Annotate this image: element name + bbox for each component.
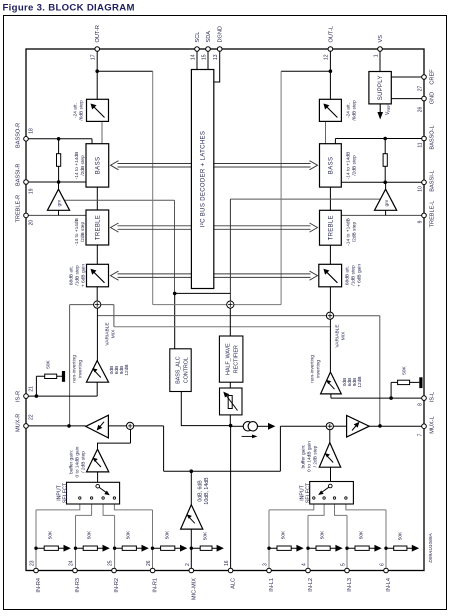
svg-text:-14 to +14dB: -14 to +14dB: [346, 218, 352, 246]
svg-text:1: 1: [373, 54, 379, 57]
svg-text:/ 2dB step: / 2dB step: [313, 445, 319, 467]
svg-text:buffer gain:: buffer gain:: [69, 450, 75, 474]
op-amp mic: [181, 505, 203, 529]
pin 19 BASSI-R: [24, 180, 29, 185]
summing node R: [326, 312, 333, 319]
svg-text:BASS_ALC: BASS_ALC: [176, 356, 182, 384]
svg-text:D99AU1069A: D99AU1069A: [428, 533, 434, 562]
svg-text:5: 5: [341, 563, 347, 566]
svg-text:MIX: MIX: [111, 329, 117, 338]
wire IN-L3 column: [346, 515, 348, 570]
block INPUT SELECT R: [67, 482, 120, 504]
wire OUT-R tap drop: [152, 71, 154, 304]
svg-text:/2dB step: /2dB step: [352, 222, 358, 243]
wire gm-R feed drop to node A: [174, 200, 176, 293]
svg-text:IN-R4: IN-R4: [36, 578, 42, 593]
wire input rail L: [269, 547, 413, 549]
svg-text:VS: VS: [378, 35, 384, 43]
op-amp buffer gain L: [319, 443, 340, 468]
svg-text:TREBLE: TREBLE: [95, 215, 101, 240]
svg-text:I²C BUS DECODER + LATCHES: I²C BUS DECODER + LATCHES: [201, 131, 207, 228]
wire rectifier feed horizontal: [175, 292, 231, 294]
wire sum MR right branch: [134, 426, 164, 471]
wire IN-R4 column: [35, 510, 37, 571]
svg-text:12dB: 12dB: [124, 364, 130, 375]
op-amp gm R: [47, 189, 69, 210]
op-amp variable mix R: [86, 361, 108, 383]
wire pin10 BASSI-L line: [341, 181, 424, 183]
pin 2 MIC-MIX: [189, 568, 194, 573]
rail resistor network right-channel inputs: [36, 547, 413, 549]
svg-text:BASS: BASS: [95, 157, 101, 175]
pin 4 IN-L2: [306, 568, 311, 573]
summing node L: [94, 301, 101, 308]
svg-text:25: 25: [108, 560, 114, 566]
wire buffer-up R output: [329, 430, 331, 443]
wire buffer-up L output: [98, 430, 131, 450]
wire pin8 bias network: [391, 382, 419, 398]
svg-text:IS-R: IS-R: [16, 391, 22, 402]
svg-text:24: 24: [69, 560, 75, 566]
svg-text:VARIABLE: VARIABLE: [105, 322, 111, 345]
svg-text:50K: 50K: [46, 359, 52, 368]
wire selectL1 to IN-L1: [269, 504, 314, 510]
wire BASS-R to TREBLE-R: [96, 187, 98, 210]
svg-text:0dB, 6dB: 0dB, 6dB: [198, 480, 204, 502]
wire TREBLE-R to att2-R: [96, 245, 98, 264]
svg-text:/1dB step: /1dB step: [351, 265, 357, 286]
svg-text:inverting: inverting: [316, 360, 322, 378]
wire IN-R3 column: [75, 515, 77, 570]
wire ALC junction to pin16: [230, 426, 232, 571]
wire selectL4 to IN-L4: [346, 504, 386, 510]
pin 25 IN-R2: [112, 568, 117, 573]
svg-text:68dB att.: 68dB att.: [69, 266, 75, 285]
svg-text:12dB: 12dB: [357, 376, 363, 387]
block BASS_ALC CONTROL: [170, 349, 191, 392]
wire buffer L output to sum ML: [333, 425, 346, 427]
wire resistor R1 stubs: [58, 139, 60, 182]
svg-text:21: 21: [29, 386, 35, 392]
wire pin13 DGND route: [214, 51, 220, 82]
svg-text:/6dB step: /6dB step: [352, 100, 358, 121]
attenuator block 68dB R: [87, 264, 109, 287]
wire OUT-L tap left: [281, 70, 330, 72]
wire pin21 bias network: [36, 376, 62, 396]
pin 17 OUT-R: [95, 47, 100, 52]
svg-text:6: 6: [380, 563, 386, 566]
svg-text:IN-L2: IN-L2: [308, 578, 314, 592]
wire att2-R to sum node L: [96, 287, 98, 301]
summing node MUX-L: [326, 423, 333, 430]
svg-text:buffer gain:: buffer gain:: [301, 445, 307, 469]
wire IN-L2 column: [307, 515, 309, 570]
pin 22 MUX-R: [24, 424, 29, 429]
svg-text:50K: 50K: [165, 530, 171, 539]
wire pin7 MUX-L line: [369, 425, 424, 427]
wire gm-L feed corner to sum node C: [229, 199, 231, 301]
svg-text:OUT-R: OUT-R: [95, 25, 101, 42]
wire IN-L1 column: [268, 510, 270, 571]
pin 8 IS-L: [422, 396, 427, 401]
svg-text:HALF_WAVE: HALF_WAVE: [225, 343, 231, 375]
svg-text:ALC: ALC: [231, 578, 237, 589]
pin terminal circles: [24, 47, 427, 573]
svg-text:-14 to +14dB: -14 to +14dB: [346, 152, 352, 180]
svg-text:11: 11: [418, 142, 424, 147]
op-amp gm L: [375, 189, 397, 210]
wire pin17 OUT-R down to att: [96, 49, 98, 99]
op-amp mux buffer R: [86, 415, 109, 438]
svg-text:2: 2: [185, 563, 191, 566]
wire pin21 IS-R line: [26, 395, 97, 397]
svg-text:50K: 50K: [281, 530, 287, 539]
wire select3 to IN-R2: [103, 504, 115, 515]
svg-text:IN-L3: IN-L3: [347, 578, 353, 592]
svg-text:10dB, 14dB: 10dB, 14dB: [204, 477, 210, 505]
wire gm-L feed line: [230, 198, 380, 200]
svg-text:50K: 50K: [126, 530, 132, 539]
wire pin11 BASSO-L line: [335, 139, 424, 144]
block TREBLE R: [86, 210, 109, 245]
pin 3 IN-L1: [267, 568, 272, 573]
svg-text:GND: GND: [430, 92, 436, 104]
wire pin14 SCL into I2C: [196, 51, 198, 70]
current mirror: [242, 422, 276, 439]
pin 12 OUT-L: [328, 47, 333, 52]
resistor 50K at pin21: [45, 371, 65, 382]
svg-text:23: 23: [30, 560, 36, 566]
wire selectL2 to IN-L2: [308, 504, 324, 515]
summing node MUX-R: [127, 422, 134, 429]
svg-text:BASSI-R: BASSI-R: [16, 164, 22, 186]
resistor 50K r6: [161, 546, 175, 550]
svg-text:3: 3: [263, 563, 269, 566]
attenuator block -24dB L: [319, 99, 341, 121]
pin 6 IN-L4: [384, 568, 389, 573]
wire mic amp input: [190, 471, 192, 505]
wire IN-R1 column: [152, 510, 154, 571]
wire select1 to IN-R4: [36, 504, 80, 510]
pin 26 IN-R1: [150, 568, 155, 573]
svg-text:16: 16: [224, 560, 230, 566]
wire node A down to BASS_ALC: [174, 293, 176, 348]
Vref arrow under supply: [377, 104, 391, 120]
svg-text:SELECT: SELECT: [306, 482, 312, 503]
wire buffer R output to sum MR: [108, 425, 126, 427]
bus arrow I2C to BASS-L: [214, 161, 318, 170]
svg-text:MIC-MIX: MIC-MIX: [191, 578, 197, 600]
svg-text:18: 18: [29, 128, 35, 134]
svg-text:50K: 50K: [320, 530, 326, 539]
svg-text:50K: 50K: [48, 530, 54, 539]
svg-text:-14 to +14dB: -14 to +14dB: [74, 152, 80, 180]
svg-text:14: 14: [190, 54, 196, 60]
resistor 50K r3: [44, 546, 58, 550]
svg-text:gm: gm: [385, 200, 390, 207]
block BASS R: [86, 144, 109, 187]
pin 24 IN-R3: [73, 568, 78, 573]
wire ALC junction to mirror: [231, 425, 244, 427]
block SUPPLY: [369, 72, 391, 104]
svg-text:RECTIFIER: RECTIFIER: [233, 345, 239, 373]
summing node C: [227, 301, 234, 308]
wire pin20 TREBLE-R line: [26, 214, 86, 216]
attenuator block -24dB R: [87, 99, 109, 121]
svg-text:TREBLE-R: TREBLE-R: [16, 195, 22, 223]
wire mic bus horizontal: [164, 470, 281, 472]
resistor R2 (between pins 11/10): [383, 154, 387, 167]
wire mic amp output to rail: [190, 529, 192, 570]
resistor 50K r11: [394, 546, 407, 550]
pin 7 MUX-L: [422, 424, 427, 429]
svg-text:68dB att.: 68dB att.: [345, 266, 351, 285]
wire cross-feed mid gray: [153, 304, 281, 306]
device boundary box: [26, 49, 424, 571]
wire cross-feed upper long: [98, 315, 327, 317]
svg-text:50K: 50K: [398, 531, 404, 540]
resistor 50K r9: [316, 546, 330, 550]
wire varres to ALC junction: [229, 415, 231, 426]
wire mix amp L output to IS-L: [330, 394, 332, 398]
wire gm-L stubs: [385, 182, 387, 215]
resistor R1 (between pins 18/19): [57, 154, 61, 167]
svg-text:IN-L1: IN-L1: [269, 578, 275, 592]
wire select4 to IN-R1: [114, 504, 152, 510]
svg-text:BASSI-L: BASSI-L: [430, 170, 436, 191]
svg-text:BASSO-L: BASSO-L: [430, 125, 436, 149]
svg-text:SCL: SCL: [195, 32, 201, 43]
svg-text:inverting: inverting: [78, 360, 84, 378]
bus arrow I2C to TREBLE-L: [214, 223, 318, 232]
svg-text:50K: 50K: [402, 365, 408, 374]
pin 20 TREBLE-R: [24, 213, 29, 218]
pin 11 BASSO-L: [422, 136, 427, 141]
variable resistor box: [220, 388, 243, 415]
wire mix amp R output to IS-R: [96, 382, 98, 396]
svg-text:15: 15: [201, 54, 207, 60]
svg-text:CONTROL: CONTROL: [184, 357, 190, 383]
wire sum R to mix amp L: [329, 319, 331, 372]
block HALF_WAVE RECTIFIER: [219, 336, 243, 382]
svg-text:DGND: DGND: [218, 26, 224, 42]
svg-text:20: 20: [29, 220, 35, 226]
svg-text:7: 7: [418, 433, 424, 436]
wire resistor R2 stubs: [384, 139, 386, 183]
svg-text:TREBLE: TREBLE: [328, 215, 334, 240]
svg-text:4: 4: [302, 563, 308, 566]
svg-text:22: 22: [29, 414, 35, 420]
svg-text:9: 9: [418, 220, 424, 223]
wire pin18 BASSO-R line: [26, 139, 92, 144]
svg-text:MUX-L: MUX-L: [430, 416, 436, 433]
resistor 50K r8: [277, 546, 291, 550]
wire sum R right branch: [334, 316, 380, 426]
svg-text:non-inverting: non-inverting: [72, 355, 78, 383]
wire supply to pin26 GND: [391, 98, 424, 100]
wire cross-feed lower long: [114, 326, 331, 328]
wire sum C to rectifier: [229, 308, 231, 336]
svg-text:/2dB step: /2dB step: [352, 155, 358, 176]
wire pin9 TREBLE-L line: [341, 214, 424, 216]
resistor 50K r7: [200, 546, 212, 550]
resistor 50K r4: [83, 546, 97, 550]
svg-text:-14 to +14dB: -14 to +14dB: [74, 218, 80, 246]
pin 26 GND: [422, 96, 427, 101]
wire BASS-L to TREBLE-L: [329, 187, 331, 210]
svg-text:/1dB step: /1dB step: [75, 265, 81, 286]
svg-text:gm: gm: [58, 200, 63, 207]
svg-text:0 to 14dB gain: 0 to 14dB gain: [307, 441, 313, 472]
svg-text:IN-L4: IN-L4: [386, 578, 392, 592]
wire gm-R feed line: [64, 199, 174, 201]
svg-text:17: 17: [90, 54, 96, 60]
wire sum L left branch: [70, 305, 94, 426]
wire pin19 BASSI-R line: [26, 181, 86, 183]
wire OUT-L tap drop: [280, 71, 282, 304]
pin 27 CREF: [422, 75, 427, 80]
svg-text:50K: 50K: [87, 530, 93, 539]
wire IN-R2 column: [114, 515, 116, 570]
bus arrow I2C to att2-R: [111, 271, 192, 280]
svg-text:50K: 50K: [203, 531, 209, 540]
op-amp mux buffer L: [347, 415, 370, 437]
svg-text:IN-R1: IN-R1: [153, 578, 159, 593]
svg-text:IN-R3: IN-R3: [75, 578, 81, 593]
svg-text:BASSO-R: BASSO-R: [16, 123, 22, 148]
svg-text:/2dB step: /2dB step: [80, 155, 86, 176]
svg-text:-24 att.: -24 att.: [73, 103, 79, 118]
wire rectifier to varres: [229, 382, 231, 388]
svg-text:non-inverting: non-inverting: [310, 355, 316, 383]
svg-text:Figure 3. BLOCK DIAGRAM: Figure 3. BLOCK DIAGRAM: [3, 3, 135, 14]
svg-text:+ 6dB gain: + 6dB gain: [357, 264, 363, 287]
wire pin1 VS into supply: [379, 51, 381, 72]
wire sum L right branch: [101, 305, 114, 327]
wire att-L output down to BASS-L: [325, 121, 327, 143]
wire supply to pin27 CREF: [391, 76, 424, 78]
svg-text:26: 26: [418, 107, 424, 113]
svg-text:IS-L: IS-L: [430, 392, 436, 402]
pin 13 DGND: [217, 47, 222, 52]
svg-text:CREF: CREF: [430, 69, 436, 85]
svg-text:MIX: MIX: [341, 331, 347, 340]
wire buffer-up L input: [97, 472, 99, 482]
wire pin12 OUT-L down: [329, 49, 331, 99]
pin 16 ALC: [228, 568, 233, 573]
bus arrow I2C to att2-L: [214, 271, 318, 280]
op-amp buffer gain R: [87, 449, 109, 472]
svg-text:12: 12: [324, 54, 330, 60]
wire TREBLE-L to att2-L: [329, 245, 331, 264]
pin 21 IS-R: [24, 394, 29, 399]
svg-text:27: 27: [418, 86, 424, 92]
wire input rail R: [36, 547, 217, 549]
wire gm-R stubs: [58, 182, 60, 215]
resistor 50K at pin8: [398, 377, 423, 388]
wire select2 to IN-R3: [76, 504, 92, 515]
rail arrowheads R: [64, 545, 71, 552]
attenuator block 68dB L: [319, 264, 342, 287]
pin 15 SDA: [206, 47, 211, 52]
wire BASS_ALC output: [181, 392, 230, 426]
svg-text:MUX-R: MUX-R: [16, 414, 22, 432]
wire OUT-R tap right: [97, 70, 153, 72]
resistor 50K r5: [122, 546, 136, 550]
svg-text:8: 8: [418, 403, 424, 406]
wire pin22 MUX-R line: [26, 425, 86, 427]
op-amp variable mix L: [321, 372, 342, 394]
svg-text:+ 6dB gain: + 6dB gain: [81, 264, 87, 287]
rail arrowheads L: [296, 545, 303, 552]
svg-text:TREBLE-L: TREBLE-L: [430, 201, 436, 228]
svg-text:19: 19: [29, 188, 35, 194]
svg-text:/ 2dB step: / 2dB step: [81, 451, 87, 473]
wire mirror output: [257, 425, 268, 427]
svg-text:-24 att.: -24 att.: [346, 103, 352, 118]
wire pin8 IS-L line: [331, 397, 424, 399]
svg-text:26: 26: [146, 560, 152, 566]
wire pin15 SDA into I2C: [207, 51, 209, 70]
pin 18 BASSO-R: [24, 137, 29, 142]
pin 10 BASSI-L: [422, 180, 427, 185]
resistor 50K r10: [355, 546, 369, 550]
wire sum ML left branch: [280, 426, 326, 471]
bus arrow I2C to BASS-R: [111, 161, 318, 281]
wire att2-L to sum node R: [329, 287, 331, 312]
svg-text:SUPPLY: SUPPLY: [378, 75, 384, 100]
block I2C BUS DECODER + LATCHES: [191, 70, 213, 289]
svg-text:50K: 50K: [359, 530, 365, 539]
block BASS L: [320, 144, 342, 187]
wire IN-L4 column: [385, 510, 387, 571]
svg-text:0 to 14dB gain: 0 to 14dB gain: [75, 446, 81, 477]
block INPUT SELECT L: [310, 482, 354, 505]
svg-text:/2dB step: /2dB step: [80, 222, 86, 243]
wire att-R output down to BASS: [101, 121, 103, 143]
wire buffer-up R input: [330, 467, 332, 481]
svg-text:SELECT: SELECT: [63, 482, 69, 503]
pin 5 IN-L3: [345, 568, 350, 573]
svg-text:BASS: BASS: [328, 157, 334, 175]
svg-text:OUT-L: OUT-L: [328, 26, 334, 42]
svg-text:SDA: SDA: [206, 31, 212, 43]
svg-text:VARIABLE: VARIABLE: [335, 324, 341, 347]
svg-text:IN-R2: IN-R2: [114, 578, 120, 593]
bus arrow I2C to TREBLE-R: [111, 223, 192, 232]
svg-text:10: 10: [418, 186, 424, 192]
wire sum L to mix amp R: [96, 308, 98, 360]
pin 14 SCL: [195, 47, 200, 52]
pin 23 IN-R4: [34, 568, 39, 573]
svg-text:13: 13: [213, 54, 219, 60]
wire selectL3 to IN-L3: [335, 504, 348, 515]
block TREBLE L: [320, 210, 342, 245]
pin 1 VS: [378, 47, 383, 52]
svg-text:/6dB step: /6dB step: [79, 100, 85, 121]
pin 9 TREBLE-L: [422, 213, 427, 218]
